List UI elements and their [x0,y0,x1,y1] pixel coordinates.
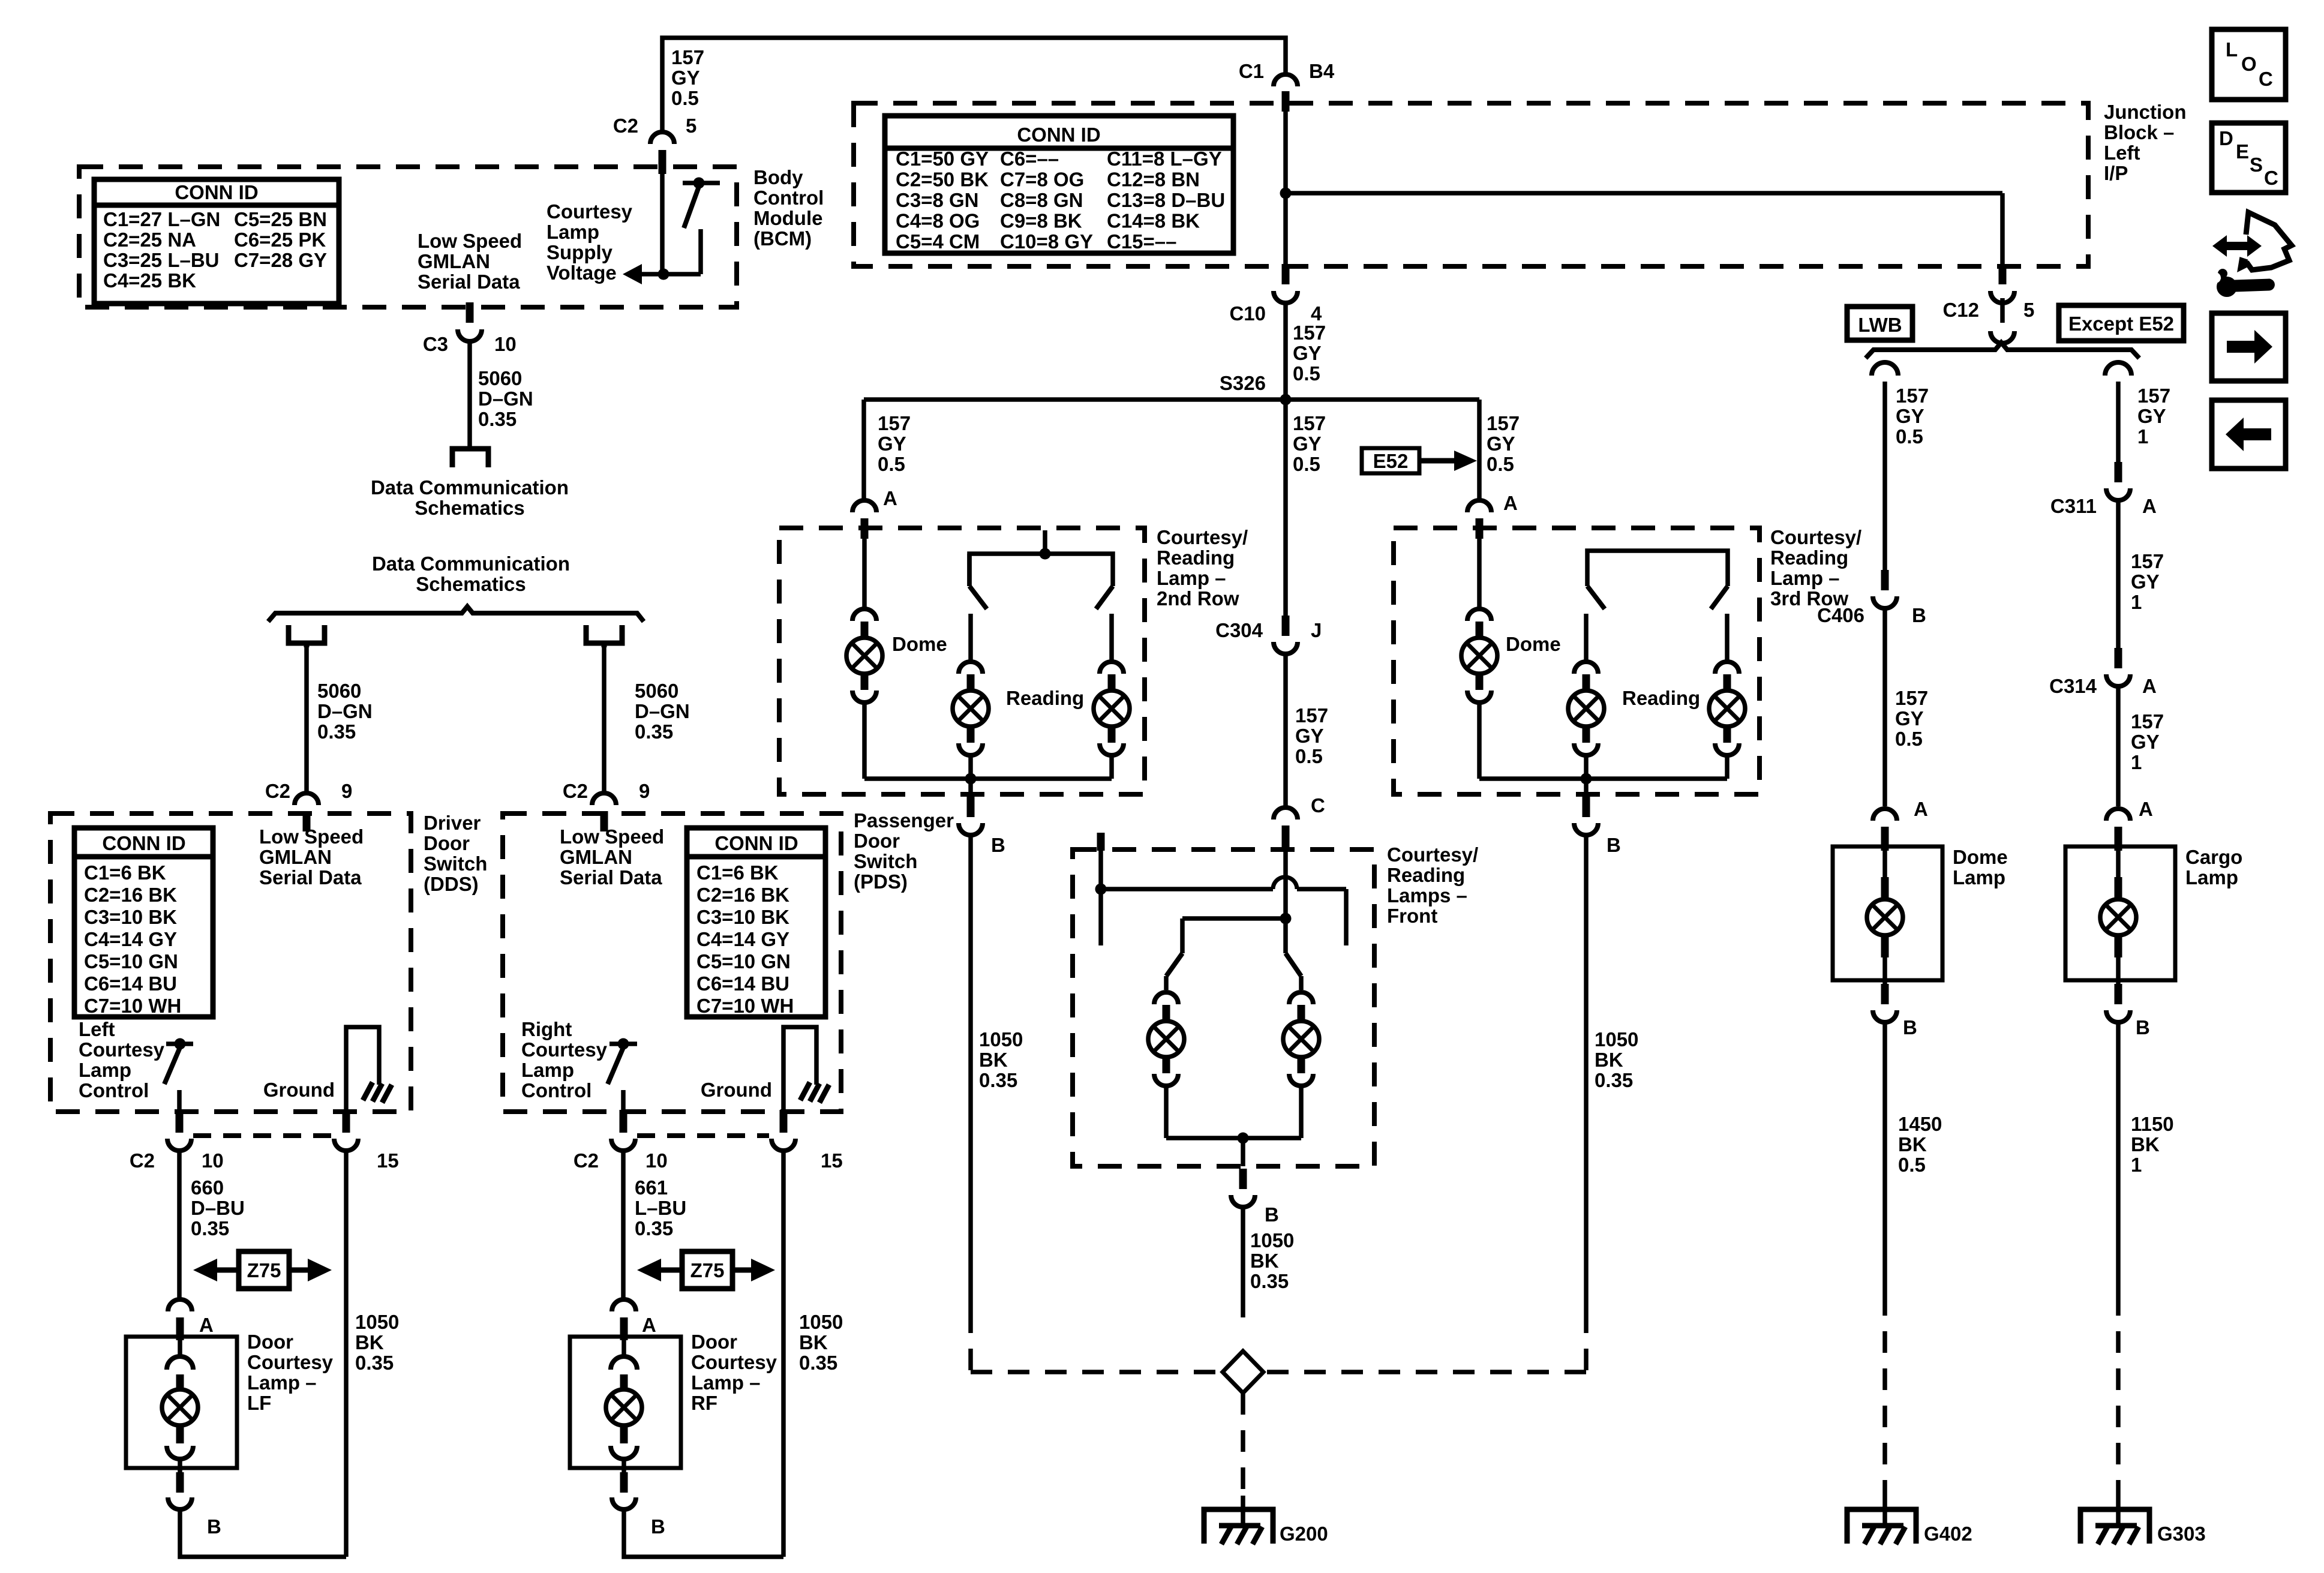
svg-text:Junction: Junction [2104,101,2187,123]
svg-text:Door: Door [854,830,900,852]
svg-text:GY: GY [1487,433,1515,455]
svg-text:BK: BK [1595,1049,1623,1071]
svg-text:1050: 1050 [979,1028,1023,1050]
svg-text:C6=––: C6=–– [1000,148,1059,170]
svg-text:E52: E52 [1373,450,1409,472]
wire label 157 GY 0.5 (3rd row feed) [1487,412,1520,475]
svg-text:157: 157 [1293,412,1326,434]
svg-text:Schematics: Schematics [415,497,524,519]
front lamps internal feed [1182,847,1292,924]
connector A at 2nd row lamp [852,487,897,539]
svg-text:1: 1 [2131,591,2142,613]
svg-text:0.5: 0.5 [1293,453,1320,475]
svg-text:GY: GY [1895,707,1924,730]
svg-text:Passenger: Passenger [854,809,954,831]
svg-text:0.5: 0.5 [671,87,699,109]
label Dome (3rd row) [1506,633,1561,655]
svg-text:C12=8 BN: C12=8 BN [1107,169,1200,191]
svg-text:GY: GY [2137,405,2166,427]
svg-text:C5=10 GN: C5=10 GN [84,950,178,972]
svg-text:2nd Row: 2nd Row [1157,587,1239,610]
svg-text:C2=16 BK: C2=16 BK [84,884,177,906]
off-page pointer right (PDS GMLAN) [586,625,622,647]
dashed wire to G402 [1882,1294,1887,1496]
svg-text:Ground: Ground [701,1079,772,1101]
DDS CONN ID table [74,828,213,1017]
connector B below RF lamp [612,1472,665,1538]
svg-text:BK: BK [1898,1133,1927,1155]
svg-text:C9=8 BK: C9=8 BK [1000,210,1082,232]
svg-text:1450: 1450 [1898,1113,1942,1135]
svg-text:C6=14 BU: C6=14 BU [696,972,789,995]
connector C2 pin 10 (DDS) [130,1110,224,1172]
connector B below LF lamp [168,1472,221,1538]
svg-text:C1=27 L–GN: C1=27 L–GN [103,208,220,230]
svg-text:Left: Left [79,1018,115,1040]
label Low Speed GMLAN Serial Data (BCM) [418,230,522,293]
Except E52 branch connector [2105,362,2131,462]
service info icon (arrow and wrench) [2210,212,2292,297]
connector B below 2nd row [959,797,1005,856]
svg-text:GY: GY [2131,571,2160,593]
svg-text:Door: Door [247,1331,293,1353]
svg-text:Supply: Supply [547,241,613,263]
svg-text:157: 157 [1896,385,1929,407]
wire C311 to C314 [2116,500,2121,648]
svg-text:15: 15 [377,1149,399,1172]
3rd row dome lamp [1461,530,1497,779]
connector C311 pin A [2050,462,2157,517]
2nd row ground bus [864,773,1112,795]
svg-text:Ground: Ground [263,1079,335,1101]
splice diamond S-ground [1223,1351,1263,1393]
option split brace [1866,343,2139,358]
svg-text:GY: GY [878,433,906,455]
svg-text:BK: BK [979,1049,1008,1071]
svg-text:Z75: Z75 [247,1259,281,1281]
wire label 5060 D-GN 0.35 (PDS) [635,680,690,743]
2nd row reading lamp left [953,614,989,779]
label Reading (3rd row) [1622,687,1700,709]
svg-text:C5=4 CM: C5=4 CM [896,230,980,253]
dome lamp bulb [1867,851,1903,984]
svg-text:Data Communication: Data Communication [371,476,569,499]
front lamps ground bus [1166,1133,1301,1167]
svg-text:C2: C2 [563,780,588,802]
svg-text:0.5: 0.5 [878,453,905,475]
svg-text:0.5: 0.5 [1487,453,1514,475]
svg-text:L–BU: L–BU [635,1197,686,1219]
label Driver Door Switch (DDS) [424,812,487,895]
label Dome (2nd row) [892,633,947,655]
svg-text:B4: B4 [1309,60,1335,82]
label Passenger Door Switch (PDS) [854,809,954,893]
Courtesy/Reading Lamp 3rd Row dashed outline [1394,528,1759,794]
connector A at cargo lamp [2106,798,2153,851]
connector A at dome lamp [1873,798,1928,851]
off-page pointer to Data Communication Schematics [452,449,488,467]
svg-text:5: 5 [2023,299,2034,321]
wire 1050 BK from 2nd row B [968,835,973,1311]
svg-text:A: A [199,1314,214,1336]
wire label 157 GY 0.5 (BCM feed) [671,46,704,109]
svg-text:A: A [642,1314,656,1336]
label Ground (PDS) [701,1079,772,1101]
svg-text:CONN ID: CONN ID [102,832,185,854]
svg-text:D–BU: D–BU [191,1197,245,1219]
svg-text:(PDS): (PDS) [854,870,908,893]
Passenger Door Switch dashed outline [503,813,841,1112]
label Data Communication Schematics (middle) [372,553,570,595]
svg-text:C2: C2 [574,1149,599,1172]
svg-text:Serial Data: Serial Data [259,866,362,888]
svg-text:Lamp: Lamp [2185,866,2238,888]
svg-text:0.5: 0.5 [1895,728,1923,750]
E52 option flag with arrow [1362,448,1477,473]
svg-text:0.5: 0.5 [1295,745,1323,767]
wire label 1450 BK 0.5 [1898,1113,1942,1176]
svg-text:C7=28 GY: C7=28 GY [234,249,327,271]
wire 1050 BK (DDS ground side) [344,1151,349,1557]
svg-text:157: 157 [671,46,704,68]
svg-text:Dome: Dome [1953,846,2008,868]
svg-text:Driver: Driver [424,812,481,834]
connector B below 3rd row [1574,797,1621,856]
connector B below cargo lamp [2106,984,2150,1038]
svg-text:Data Communication: Data Communication [372,553,570,575]
wire label 157 GY 0.5 (LWB) [1896,385,1929,448]
label Courtesy/Reading Lamp - 2nd Row [1157,526,1248,610]
label Courtesy Lamp Supply Voltage [547,200,633,284]
svg-text:C304: C304 [1215,619,1263,641]
svg-text:9: 9 [639,780,650,802]
svg-text:157: 157 [2131,710,2164,733]
svg-text:G402: G402 [1924,1523,1972,1545]
wire label 157 GY 0.5 (2nd row feed) [878,412,911,475]
label Right Courtesy Lamp Control [521,1018,608,1101]
wire S326 right branch down [1477,400,1482,500]
label Low Speed GMLAN Serial Data (PDS) [560,825,664,888]
svg-text:D–GN: D–GN [317,700,373,722]
LF door lamp bulb [162,1340,198,1475]
svg-text:CONN ID: CONN ID [1017,124,1100,146]
DESC icon [2212,123,2286,193]
svg-text:B: B [1912,604,1926,626]
2nd row reading lamp right [1094,614,1130,779]
svg-text:D–GN: D–GN [635,700,690,722]
connector pin 15 (PDS) [771,1110,843,1172]
svg-text:Lamp –: Lamp – [1157,567,1226,589]
svg-text:10: 10 [494,333,517,355]
wire 661 L-BU [621,1151,626,1298]
svg-text:CONN ID: CONN ID [714,832,798,854]
connector A at LF door lamp [168,1299,214,1340]
wire C304 to front lamps [1283,654,1288,806]
wire label 157 GY 0.5 (front feed lower) [1295,704,1328,767]
label Ground (DDS) [263,1079,335,1101]
svg-text:0.5: 0.5 [1896,425,1923,448]
svg-text:1050: 1050 [355,1311,399,1333]
Courtesy/Reading Lamp 2nd Row dashed outline [779,528,1145,794]
svg-text:157: 157 [878,412,911,434]
svg-text:A: A [883,487,897,509]
svg-text:BK: BK [799,1331,828,1353]
svg-text:J: J [1311,619,1322,641]
connector C10 pin 4 below junction block [1229,264,1322,325]
svg-text:Reading: Reading [1770,547,1848,569]
svg-text:C12: C12 [1942,299,1979,321]
svg-text:Voltage: Voltage [547,262,617,284]
svg-text:Except E52: Except E52 [2068,313,2174,335]
svg-text:Courtesy/: Courtesy/ [1387,843,1478,866]
wire label 157 GY 0.5 (C10 drop) [1293,322,1326,385]
svg-text:Lamp: Lamp [79,1059,131,1081]
svg-text:D: D [2219,127,2233,149]
svg-text:C3=10 BK: C3=10 BK [84,906,177,928]
svg-text:0.5: 0.5 [1293,362,1320,385]
front left lamp [1148,918,1184,1138]
svg-text:B: B [991,834,1005,856]
svg-text:A: A [2142,675,2157,697]
svg-text:157: 157 [2131,550,2164,572]
wire 1150 BK from cargo lamp [2116,1022,2121,1294]
BCM CONN ID table [94,179,339,304]
svg-text:157: 157 [1295,704,1328,727]
svg-text:Reading: Reading [1622,687,1700,709]
data comm brace [268,607,644,622]
svg-text:GY: GY [1293,433,1322,455]
svg-text:0.35: 0.35 [191,1217,229,1239]
RF door lamp bulb [606,1340,642,1475]
svg-text:1050: 1050 [1595,1028,1638,1050]
svg-text:A: A [2139,798,2153,820]
svg-text:C: C [2259,68,2273,90]
svg-text:Reading: Reading [1387,864,1465,886]
svg-text:S: S [2250,154,2263,176]
label Cargo Lamp [2185,846,2242,888]
svg-text:1: 1 [2131,751,2142,773]
svg-text:Serial Data: Serial Data [560,866,662,888]
svg-text:Lamp –: Lamp – [691,1371,761,1394]
svg-text:A: A [2142,495,2157,517]
svg-text:5060: 5060 [478,367,522,389]
svg-text:B: B [1903,1016,1917,1038]
svg-text:C2=50 BK: C2=50 BK [896,169,989,191]
connector pin 15 (DDS) [334,1110,399,1172]
wire LF lamp B to ground wire [180,1509,346,1557]
wire 1050 BK from front lamps B [1241,1207,1245,1317]
svg-text:C1=6 BK: C1=6 BK [84,861,166,884]
Cargo Lamp box [2065,846,2175,980]
Z75 tie point (left) [193,1251,332,1289]
svg-text:Control: Control [521,1079,591,1101]
dashed ground run from 3rd row [1266,1311,1586,1372]
svg-text:C406: C406 [1817,604,1864,626]
Courtesy/Reading Lamps Front dashed outline [1073,849,1374,1166]
label Door Courtesy Lamp - RF [691,1331,777,1414]
svg-text:10: 10 [645,1149,668,1172]
ground G303 [2080,1496,2206,1545]
ground G402 [1847,1496,1972,1545]
svg-text:15: 15 [821,1149,843,1172]
svg-text:0.35: 0.35 [1595,1069,1633,1091]
2nd row lamp feed bus (hat) [969,530,1113,609]
svg-text:C2: C2 [130,1149,155,1172]
svg-text:C2=25 NA: C2=25 NA [103,229,196,251]
svg-text:C3=8 GN: C3=8 GN [896,189,978,211]
svg-text:Switch: Switch [424,852,487,875]
label Body Control Module (BCM) [753,166,824,250]
dashed wire to G303 [2116,1294,2121,1496]
label Door Courtesy Lamp - LF [247,1331,334,1414]
wire label 1050 BK 0.35 (PDS) [799,1311,843,1374]
wire 1050 BK from 3rd row B [1584,835,1589,1311]
svg-text:C4=25 BK: C4=25 BK [103,269,196,292]
svg-text:661: 661 [635,1176,668,1199]
svg-text:GY: GY [1896,405,1924,427]
svg-text:Lamp: Lamp [547,221,599,243]
svg-text:D–GN: D–GN [478,388,533,410]
label Junction Block - Left I/P [2104,101,2187,184]
svg-text:157: 157 [1293,322,1326,344]
svg-text:157: 157 [1895,687,1928,709]
svg-text:Right: Right [521,1018,572,1040]
svg-text:C5=10 GN: C5=10 GN [696,950,791,972]
svg-text:BK: BK [1250,1250,1279,1272]
wire S326 left branch down [861,400,866,500]
svg-text:Courtesy: Courtesy [79,1038,165,1061]
wire 1050 BK (PDS ground side) [781,1151,786,1557]
svg-text:Lamp: Lamp [1953,866,2005,888]
svg-text:0.35: 0.35 [355,1352,394,1374]
svg-text:C6=25 PK: C6=25 PK [234,229,326,251]
svg-text:B: B [207,1515,221,1538]
PDS connector face dashes [637,1133,769,1138]
wire 1450 BK from dome lamp [1882,1022,1887,1294]
svg-text:Door: Door [691,1331,737,1353]
svg-text:0.35: 0.35 [635,1217,673,1239]
PDS CONN ID table [687,828,825,1017]
svg-text:0.5: 0.5 [1898,1154,1926,1176]
svg-text:157: 157 [1487,412,1520,434]
label Courtesy/Reading Lamp - 3rd Row [1770,526,1861,610]
wire label 5060 D-GN 0.35 (DDS) [317,680,373,743]
svg-text:Control: Control [753,187,824,209]
svg-text:GY: GY [1295,725,1324,747]
svg-text:Courtesy: Courtesy [547,200,633,223]
label Data Communication Schematics (top) [371,476,569,519]
svg-text:1: 1 [2137,425,2148,448]
off-page pointer left (DDS GMLAN) [289,625,325,647]
svg-text:Lamp –: Lamp – [1770,567,1840,589]
svg-text:C3: C3 [423,333,448,355]
Z75 tie point (right) [637,1251,775,1289]
svg-text:C4=8 OG: C4=8 OG [896,210,980,232]
svg-text:0.35: 0.35 [478,408,517,430]
junction block internal bus [1280,112,2003,264]
wire 5060 D-GN from BCM C3 [467,340,472,447]
svg-text:Lamps –: Lamps – [1387,884,1467,906]
svg-text:Dome: Dome [1506,633,1561,655]
svg-text:Serial Data: Serial Data [418,271,520,293]
wire S326 branch bus [864,397,1479,402]
Body Control Module dashed outline [79,167,737,307]
wire label 1050 BK 0.35 (DDS) [355,1311,399,1374]
svg-text:B: B [2136,1016,2150,1038]
svg-text:5: 5 [686,115,696,137]
DDS courtesy lamp switch [164,1038,193,1114]
svg-text:G200: G200 [1280,1523,1328,1545]
svg-text:C6=14 BU: C6=14 BU [84,972,177,995]
3rd row ground bus [1479,773,1727,795]
svg-text:LF: LF [247,1392,271,1414]
wire 660 D-BU [177,1151,182,1298]
wire RF lamp B to ground wire [624,1509,783,1557]
svg-text:C7=10 WH: C7=10 WH [696,995,794,1017]
dashed wire diamond to G200 [1241,1393,1245,1496]
svg-text:GMLAN: GMLAN [560,846,632,868]
svg-text:GY: GY [1293,342,1322,364]
connector B below front lamps [1231,1169,1279,1226]
svg-text:C2: C2 [265,780,290,802]
svg-text:C8=8 GN: C8=8 GN [1000,189,1083,211]
svg-text:C3=10 BK: C3=10 BK [696,906,789,928]
wire label 1050 BK 0.35 (front) [1250,1229,1294,1292]
svg-text:Courtesy/: Courtesy/ [1157,526,1248,548]
svg-text:B: B [651,1515,665,1538]
svg-text:0.35: 0.35 [799,1352,837,1374]
splice S326 [1220,372,1292,406]
wire label 157 GY 1 (upper) [2137,385,2170,448]
svg-text:Lamp: Lamp [521,1059,574,1081]
svg-text:Body: Body [753,166,803,188]
LOC icon [2212,29,2286,100]
PDS courtesy lamp switch [608,1038,637,1114]
wire label 157 GY 0.5 (dome) [1895,687,1928,750]
svg-text:Left: Left [2104,142,2140,164]
svg-text:GY: GY [2131,731,2160,753]
connector C1 pin B4 at junction block [1239,60,1335,112]
svg-text:C15=––: C15=–– [1107,230,1177,253]
LWB branch connector [1872,362,1898,570]
cargo lamp bulb [2100,851,2136,984]
svg-text:LWB: LWB [1858,314,1902,336]
Door Courtesy Lamp RF box [570,1337,681,1468]
connector C2 pin 9 at PDS [563,780,650,831]
svg-text:0.35: 0.35 [1250,1270,1289,1292]
Door Courtesy Lamp LF box [126,1337,237,1468]
svg-text:Cargo: Cargo [2185,846,2242,868]
svg-text:1: 1 [2131,1154,2142,1176]
svg-text:C: C [2264,167,2278,189]
svg-text:Courtesy: Courtesy [247,1351,334,1373]
BCM internal supply wire [660,174,665,274]
label Courtesy/Reading Lamps - Front [1387,843,1478,927]
svg-text:(BCM): (BCM) [753,227,812,250]
svg-text:C7=10 WH: C7=10 WH [84,995,181,1017]
svg-text:C13=8 D–BU: C13=8 D–BU [1107,189,1225,211]
junction block CONN ID table [885,116,1233,253]
label Low Speed GMLAN Serial Data (DDS) [259,825,364,888]
svg-text:0.35: 0.35 [979,1069,1017,1091]
back arrow icon [2212,400,2286,469]
junction block wire to C12 [1942,264,2034,343]
svg-text:E: E [2236,140,2249,163]
svg-text:0.35: 0.35 [635,721,673,743]
wire C314 to cargo lamp [2116,686,2121,806]
svg-text:9: 9 [341,780,352,802]
LWB option flag [1847,307,1912,340]
